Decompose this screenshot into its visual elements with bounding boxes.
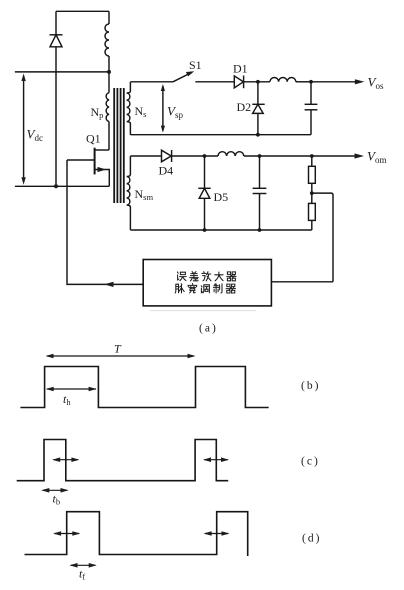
Vdc dimension arrow — [23, 76, 25, 182]
svg-text:Vom: Vom — [367, 149, 386, 166]
inductor L1 — [270, 78, 296, 82]
tb dimension arrow — [43, 489, 68, 491]
winding Nsm — [127, 156, 131, 230]
transistor Q1 channel bar — [94, 148, 96, 175]
output Vos arrow — [311, 81, 356, 83]
output Vom arrow — [312, 155, 356, 157]
svg-text:Q1: Q1 — [86, 132, 101, 146]
junction dot diode anode — [54, 184, 58, 188]
mod arrow d pulse1 — [54, 533, 79, 535]
Q1 drain wire — [95, 149, 109, 151]
feedback wire to box — [271, 281, 333, 283]
Q1 source arrow — [98, 167, 107, 172]
T dimension arrow — [47, 355, 194, 357]
secondary winding Ns — [127, 82, 131, 135]
switch S1 blade — [173, 73, 192, 82]
diode D2 — [257, 82, 259, 105]
svg-text:(b): (b) — [301, 380, 319, 392]
wire top clamp — [56, 10, 109, 12]
th dimension arrow — [47, 388, 96, 390]
wire D4 to D5 node — [172, 155, 218, 157]
svg-text:D5: D5 — [214, 190, 229, 204]
wire L1 to cap — [296, 81, 311, 83]
resistor R1 — [311, 156, 313, 166]
node dot primary top — [107, 70, 111, 74]
svg-text:D2: D2 — [237, 100, 252, 114]
clamp diode — [55, 11, 57, 35]
feedback tap wire — [312, 193, 333, 282]
svg-text:Nsm: Nsm — [135, 187, 154, 202]
inductor L2 — [218, 152, 244, 156]
Q1 gate wire — [67, 159, 95, 161]
PWM box text line2: 脉宽调制器 — [175, 284, 235, 293]
svg-text:D4: D4 — [159, 164, 174, 178]
svg-text:Vdc: Vdc — [27, 127, 43, 144]
waveform (b) — [20, 367, 268, 408]
Vsp dimension arrow — [162, 86, 164, 131]
diode D1 — [234, 76, 243, 88]
mod arrow d pulse2 — [205, 533, 228, 535]
transformer core — [113, 88, 115, 203]
PWM box text line1: 误差放大器 — [177, 272, 236, 281]
transformer primary wire — [108, 72, 110, 93]
output2 rail from Nsm — [130, 155, 161, 157]
waveform (d) — [25, 512, 248, 556]
Q1 source wire — [95, 170, 110, 187]
feedback arrowhead — [104, 282, 114, 287]
svg-text:tf: tf — [79, 567, 85, 582]
diode D5 — [204, 156, 206, 188]
svg-text:tb: tb — [53, 492, 61, 507]
clamp winding Nr — [108, 11, 110, 24]
waveform (c) — [17, 440, 229, 481]
svg-text:T: T — [114, 342, 122, 356]
top rail Vdc+ — [15, 71, 109, 73]
svg-text:(c): (c) — [301, 456, 318, 468]
wire S1 right — [195, 81, 234, 83]
resistor R2 — [311, 193, 313, 203]
svg-text:Ns: Ns — [135, 104, 147, 119]
mod arrow c pulse2 — [204, 459, 227, 461]
svg-text:Vos: Vos — [368, 75, 384, 92]
output2 bottom rail — [130, 229, 311, 231]
svg-text:D1: D1 — [233, 62, 248, 76]
svg-text:Np: Np — [91, 105, 104, 120]
PWM box — [143, 260, 271, 306]
mod arrow c pulse1 — [54, 459, 79, 461]
diode D4 — [162, 150, 172, 162]
capacitor C1 — [310, 82, 312, 105]
box output wire to gate — [67, 160, 143, 284]
output1 rail from Ns — [130, 81, 173, 83]
svg-text:(a): (a) — [199, 323, 216, 335]
svg-text:th: th — [63, 392, 71, 407]
scan artifact line — [150, 310, 256, 312]
svg-text:Vsp: Vsp — [167, 104, 183, 121]
capacitor C2 — [259, 156, 261, 188]
svg-text:(d): (d) — [302, 533, 320, 545]
wire D1 to D2 node — [244, 81, 270, 83]
tf dimension arrow — [71, 564, 96, 566]
svg-text:S1: S1 — [189, 58, 202, 72]
primary winding Np — [106, 93, 109, 122]
bottom rail Vdc- — [15, 185, 109, 187]
output1 bottom rail — [130, 134, 311, 136]
wire L2 to R1 — [244, 155, 312, 157]
